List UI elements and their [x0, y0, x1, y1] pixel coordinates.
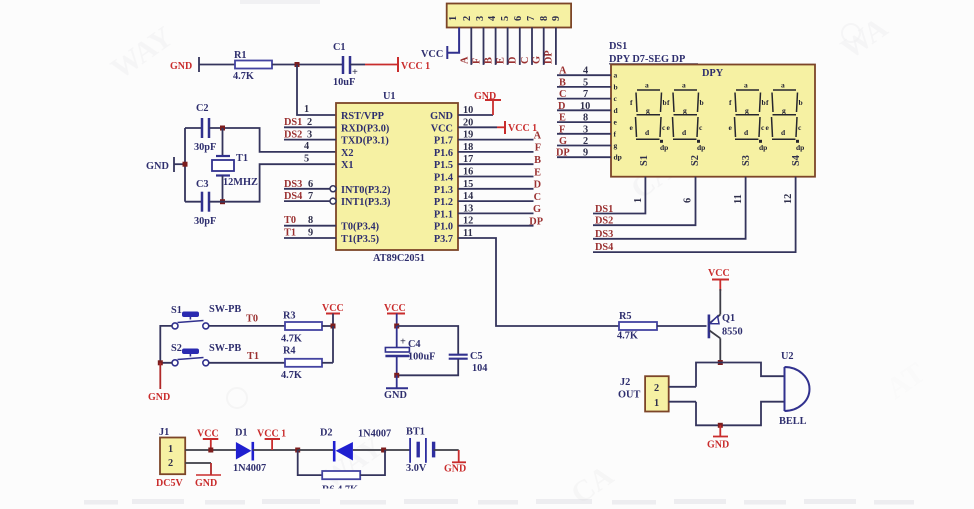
wire / net T1	[209, 351, 285, 363]
svg-text:DP: DP	[529, 217, 543, 228]
pin 9 / net T1	[284, 228, 336, 239]
wire (bell bottom loop)	[696, 402, 785, 426]
wire S2 / net DS2	[593, 177, 696, 227]
svg-text:S1: S1	[639, 155, 650, 166]
svg-text:R3: R3	[283, 311, 296, 322]
ground GND (left of R1)	[170, 57, 199, 72]
svg-text:VCC: VCC	[384, 303, 406, 314]
capacitor C5 104	[449, 351, 488, 374]
op-amp U1 AT89C2051 (MCU body)	[336, 91, 458, 264]
svg-text:T0: T0	[284, 215, 296, 226]
svg-text:4: 4	[304, 141, 309, 152]
wire (filter loop bottom)	[397, 359, 459, 375]
svg-text:R1: R1	[234, 50, 247, 61]
svg-text:P1.7: P1.7	[434, 136, 453, 147]
svg-text:J1: J1	[159, 427, 169, 438]
wire (junction down to U1 pin 1)	[297, 65, 336, 116]
svg-text:T1: T1	[247, 351, 259, 362]
svg-text:SW-PB: SW-PB	[209, 304, 241, 315]
svg-text:8550: 8550	[722, 327, 743, 338]
svg-text:6: 6	[513, 16, 524, 21]
svg-text:VCC: VCC	[197, 429, 219, 440]
wire (J2 pin1)	[669, 401, 696, 403]
svg-text:P1.6: P1.6	[434, 148, 453, 159]
svg-text:P1.1: P1.1	[434, 209, 453, 220]
svg-text:C: C	[520, 57, 531, 64]
node (R1 / C1 / U1 pin1 junction)	[295, 62, 300, 67]
svg-text:T0: T0	[246, 314, 258, 325]
svg-text:C5: C5	[470, 351, 483, 362]
svg-text:GND: GND	[430, 111, 453, 122]
U1SECTION	[284, 91, 619, 326]
svg-text:VCC: VCC	[431, 123, 453, 134]
capacitor C3	[185, 179, 216, 227]
node (collector / bell top)	[718, 360, 723, 365]
net row B 5	[557, 77, 611, 88]
pin 9 wire / net DP	[544, 28, 556, 65]
pin 16 / net E	[458, 167, 541, 179]
wire (filter loop)	[397, 326, 459, 354]
wire (collector down)	[719, 338, 721, 362]
pin 4 wire / net B	[484, 28, 496, 65]
svg-text:12: 12	[783, 194, 794, 204]
ground GND (filter)	[384, 375, 408, 401]
svg-text:R5: R5	[619, 311, 632, 322]
svg-text:30pF: 30pF	[194, 216, 216, 227]
ground GND (J1 pin2)	[185, 463, 221, 489]
svg-text:S2: S2	[171, 343, 182, 354]
buzzer U2 BELL	[779, 351, 809, 427]
svg-text:GND: GND	[195, 478, 217, 489]
svg-text:104: 104	[472, 363, 487, 374]
wire	[322, 362, 333, 364]
pin 12 / net DP	[458, 216, 543, 228]
wire	[272, 64, 342, 66]
svg-text:BELL: BELL	[779, 416, 807, 427]
svg-text:DS1: DS1	[609, 41, 627, 52]
ground GND (crystal rail)	[146, 157, 185, 172]
svg-text:100uF: 100uF	[408, 352, 435, 363]
svg-text:g: g	[614, 141, 618, 150]
svg-text:J2: J2	[620, 377, 630, 388]
svg-text:1: 1	[633, 198, 644, 203]
wire S4 / net DS4	[593, 177, 796, 253]
svg-text:G: G	[532, 56, 543, 64]
svg-text:1: 1	[654, 398, 659, 409]
svg-text:U1: U1	[383, 91, 396, 102]
svg-text:S3: S3	[741, 155, 752, 166]
switch S2 SW-PB	[171, 343, 241, 366]
net row DP 9	[556, 148, 611, 159]
Q1BELL	[617, 268, 809, 451]
crystal T1 12MHZ	[212, 153, 258, 188]
svg-text:b: b	[614, 82, 618, 91]
switch S1 SW-PB	[171, 304, 241, 329]
svg-text:1: 1	[304, 104, 309, 115]
7-seg digit 1	[630, 81, 669, 153]
wire (VCC column down to R4)	[332, 326, 334, 363]
svg-text:INT0(P3.2): INT0(P3.2)	[341, 185, 390, 196]
svg-text:B: B	[534, 155, 541, 166]
svg-text:3.0V: 3.0V	[406, 463, 427, 474]
capacitor C2	[185, 103, 216, 153]
node (switch common)	[158, 360, 163, 365]
svg-text:4.7K: 4.7K	[617, 331, 638, 342]
wire	[253, 449, 298, 451]
svg-text:dp: dp	[614, 153, 622, 162]
svg-text:RST/VPP: RST/VPP	[341, 111, 384, 122]
7-seg digit 2	[667, 81, 706, 153]
wire	[199, 64, 235, 66]
svg-text:9: 9	[551, 16, 562, 21]
pin 2 / net DS1	[284, 117, 336, 128]
svg-text:3: 3	[475, 16, 486, 21]
pin 3 / net DS2	[284, 130, 336, 141]
pin 10 / ground	[458, 91, 501, 116]
pin 13 / net G	[458, 203, 541, 215]
wire (bypass loop right)	[360, 450, 385, 475]
svg-text:S2: S2	[690, 155, 701, 166]
svg-text:A: A	[460, 56, 471, 64]
svg-text:DS2: DS2	[595, 216, 613, 227]
node (GND tap)	[183, 162, 188, 167]
svg-text:2: 2	[307, 117, 312, 128]
node (D2 right)	[381, 448, 386, 453]
pin 7 / net DS4	[284, 191, 336, 204]
svg-text:GND: GND	[384, 390, 407, 401]
wire (X2 branch)	[209, 128, 336, 152]
svg-text:P3.7: P3.7	[434, 234, 453, 245]
svg-text:RXD(P3.0): RXD(P3.0)	[341, 123, 389, 134]
node (crystal top)	[220, 126, 225, 131]
svg-text:P1.5: P1.5	[434, 160, 453, 171]
7-seg digit 4	[766, 81, 805, 153]
svg-text:T1: T1	[236, 153, 248, 164]
pin 8 wire / net G	[532, 28, 544, 65]
svg-text:DS3: DS3	[595, 229, 613, 240]
capacitor C4 100uF	[385, 326, 435, 375]
7-seg digit 3	[729, 81, 768, 153]
wire (bell top loop)	[696, 363, 785, 387]
svg-text:TXD(P3.1): TXD(P3.1)	[341, 136, 389, 147]
TOPLEFT	[170, 42, 430, 115]
svg-text:a: a	[614, 71, 618, 80]
connector J2 OUT	[618, 376, 669, 411]
svg-text:DC5V: DC5V	[156, 478, 183, 489]
svg-text:BT1: BT1	[406, 427, 425, 438]
svg-text:S4: S4	[791, 155, 802, 166]
svg-text:R4: R4	[283, 346, 296, 357]
net row D 10	[557, 101, 611, 112]
svg-text:+: +	[400, 337, 406, 348]
resistor R1	[233, 50, 272, 82]
pin 20 / power VCC1	[458, 117, 537, 134]
svg-text:T1(P3.5): T1(P3.5)	[341, 234, 379, 245]
svg-text:12MHZ: 12MHZ	[223, 177, 258, 188]
wire (base)	[657, 325, 707, 327]
node (D2 left)	[295, 448, 300, 453]
svg-text:DPY: DPY	[702, 68, 724, 79]
net row G 2	[557, 136, 611, 147]
net row C 7	[557, 89, 611, 100]
svg-text:VCC 1: VCC 1	[401, 61, 430, 72]
svg-text:30pF: 30pF	[194, 142, 216, 153]
svg-text:11: 11	[733, 194, 744, 204]
display DS1 DPY D7-SEG DP (labels)	[609, 41, 698, 65]
wire / net T0	[209, 314, 285, 326]
svg-text:F: F	[535, 143, 541, 154]
connector J1 DC5V	[156, 427, 185, 489]
svg-text:E: E	[496, 57, 507, 64]
pin 17 / net B	[458, 154, 541, 166]
DISPLAY	[556, 41, 815, 253]
svg-text:OUT: OUT	[618, 390, 640, 401]
svg-text:2: 2	[654, 383, 659, 394]
svg-text:T1: T1	[284, 228, 296, 239]
svg-text:4.7K: 4.7K	[281, 370, 302, 381]
pin 18 / net F	[458, 142, 541, 154]
svg-text:GND: GND	[707, 440, 729, 451]
svg-text:T0(P3.4): T0(P3.4)	[341, 222, 379, 233]
svg-text:P1.4: P1.4	[434, 173, 453, 184]
connector header (9-pin)	[447, 4, 571, 28]
pin 3 wire / net F	[472, 28, 484, 65]
battery BT1 3.0V	[406, 427, 434, 475]
svg-text:DS1: DS1	[284, 117, 302, 128]
svg-text:2: 2	[168, 458, 173, 469]
svg-text:S1: S1	[171, 305, 182, 316]
svg-text:4.7K: 4.7K	[281, 334, 302, 345]
svg-text:1: 1	[168, 444, 173, 455]
svg-text:D2: D2	[320, 428, 333, 439]
net row E 8	[557, 113, 611, 124]
svg-text:AT89C2051: AT89C2051	[373, 253, 425, 264]
wire (crystal bottom lead)	[222, 176, 224, 202]
transistor Q1 8550	[709, 313, 743, 338]
svg-text:GND: GND	[148, 392, 170, 403]
svg-text:1: 1	[448, 16, 459, 21]
svg-text:F: F	[472, 58, 483, 64]
SWITCHES	[148, 303, 344, 403]
svg-text:D: D	[534, 180, 541, 191]
wire (X1 branch)	[209, 164, 336, 202]
svg-text:4.7K: 4.7K	[233, 71, 254, 82]
svg-text:GND: GND	[444, 464, 466, 475]
wire S1 / net DS1	[593, 177, 645, 215]
svg-text:5: 5	[500, 16, 511, 21]
svg-text:X1: X1	[341, 160, 354, 171]
CRYSTAL	[146, 103, 336, 227]
wire (emitter up to VCC)	[719, 289, 721, 315]
svg-text:VCC: VCC	[708, 268, 730, 279]
svg-text:VCC: VCC	[421, 49, 443, 60]
svg-text:VCC: VCC	[322, 303, 344, 314]
ground GND (battery)	[444, 450, 466, 475]
pin 1 wire / power VCC (blue flag)	[421, 28, 459, 61]
svg-text:6: 6	[683, 198, 694, 203]
svg-text:4: 4	[487, 16, 498, 21]
C4C5	[384, 303, 487, 401]
svg-text:INT1(P3.3): INT1(P3.3)	[341, 197, 390, 208]
capacitor C1	[333, 42, 358, 88]
svg-text:C2: C2	[196, 103, 209, 114]
wire (switch commons)	[160, 326, 172, 363]
power VCC1 (right of C1)	[365, 57, 430, 72]
power VCC (Q1)	[708, 268, 730, 291]
resistor R4	[281, 346, 322, 382]
POWER	[156, 427, 466, 496]
ground GND (bell)	[707, 425, 729, 450]
svg-text:C: C	[534, 192, 541, 203]
power VCC (switch pull-ups)	[322, 303, 344, 326]
wire	[434, 449, 459, 451]
wire	[353, 449, 410, 451]
svg-text:GND: GND	[170, 61, 192, 72]
diode D1 1N4007	[233, 428, 266, 475]
HEADER	[421, 4, 571, 65]
power VCC (rail)	[197, 429, 219, 451]
svg-text:Q1: Q1	[722, 313, 735, 324]
node (GND stub)	[718, 423, 723, 428]
wire	[350, 64, 365, 66]
pin 5 wire / net E	[496, 28, 508, 65]
svg-text:GND: GND	[474, 91, 496, 102]
node (C4/C5 top)	[394, 324, 399, 329]
svg-text:1N4007: 1N4007	[233, 463, 266, 474]
svg-text:D: D	[508, 57, 519, 64]
svg-text:U2: U2	[781, 351, 794, 362]
net row F 3	[557, 124, 611, 135]
wire	[298, 449, 334, 451]
svg-text:DP: DP	[544, 50, 555, 64]
pin 8 / net T0	[284, 215, 336, 226]
wire S3 / net DS3	[593, 177, 746, 240]
svg-text:2: 2	[462, 16, 473, 21]
svg-text:B: B	[484, 57, 495, 64]
pin 6 / net DS3	[284, 179, 336, 192]
svg-text:X2: X2	[341, 148, 354, 159]
pin 6 wire / net D	[508, 28, 520, 65]
svg-text:GND: GND	[146, 161, 169, 172]
svg-text:C3: C3	[196, 179, 209, 190]
resistor R6 (bypass)	[322, 471, 360, 496]
wire (J2 pin2)	[669, 386, 696, 388]
svg-text:5: 5	[304, 153, 309, 164]
pin 15 / net D	[458, 179, 541, 191]
net row A 4	[557, 66, 611, 77]
svg-text:D1: D1	[235, 428, 248, 439]
display body DPY	[611, 65, 815, 177]
node (R3/R4 VCC column)	[331, 324, 336, 329]
wire (J1 pin1 to rail)	[185, 449, 236, 451]
svg-text:DS1: DS1	[595, 204, 613, 215]
ground GND (switches)	[148, 363, 170, 403]
pin 2 wire / net A	[460, 28, 472, 65]
pin 11 / wire to R5	[458, 228, 619, 326]
svg-text:DS4: DS4	[595, 242, 613, 253]
svg-text:E: E	[534, 167, 541, 178]
power VCC (filter)	[384, 303, 406, 326]
diode D2 1N4007	[320, 428, 391, 462]
node (crystal bottom)	[220, 199, 225, 204]
svg-text:10uF: 10uF	[333, 77, 355, 88]
svg-text:9: 9	[308, 228, 313, 239]
power VCC1 (after D1)	[257, 429, 286, 451]
pin 19 / net A	[458, 130, 542, 142]
svg-text:P1.0: P1.0	[434, 222, 453, 233]
svg-text:SW-PB: SW-PB	[209, 343, 241, 354]
svg-text:VCC 1: VCC 1	[257, 429, 286, 440]
wire (bypass loop left)	[298, 450, 323, 475]
svg-text:7: 7	[526, 16, 537, 21]
svg-text:P1.3: P1.3	[434, 185, 453, 196]
svg-text:1N4007: 1N4007	[358, 429, 391, 440]
pin 7 wire / net C	[520, 28, 532, 65]
svg-text:A: A	[534, 130, 542, 141]
svg-text:P1.2: P1.2	[434, 197, 453, 208]
svg-text:G: G	[533, 204, 541, 215]
resistor R5	[617, 311, 657, 342]
node (VCC tap)	[208, 448, 213, 453]
wire (left rail)	[184, 128, 186, 202]
pin 14 / net C	[458, 191, 541, 203]
svg-text:8: 8	[539, 16, 550, 21]
svg-text:C1: C1	[333, 42, 346, 53]
wire (crystal top lead)	[222, 128, 224, 156]
resistor R3	[281, 311, 322, 345]
wire	[322, 325, 333, 327]
svg-text:8: 8	[308, 215, 313, 226]
node (C4/C5 bottom)	[394, 373, 399, 378]
